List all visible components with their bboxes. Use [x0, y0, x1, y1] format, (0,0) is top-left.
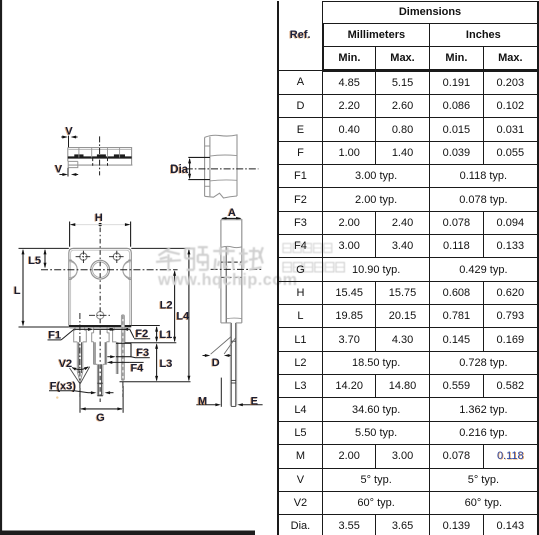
top view hidden lead dashes [92, 159, 94, 168]
F4 underline [130, 361, 144, 363]
bottom ext line left [19, 326, 69, 328]
top view bottom edge [68, 164, 132, 166]
side centerline [211, 268, 262, 270]
center lead shoulder [92, 333, 109, 342]
right lead centerline [122, 382, 124, 397]
L4 dimension line [188, 250, 190, 380]
center lead narrow inner [98, 364, 100, 396]
front body bottom thick edge [69, 325, 132, 327]
left lead shoulder [74, 330, 87, 342]
G extension lines [79, 388, 81, 413]
H extension lines [69, 222, 71, 247]
V top extension line [68, 136, 70, 148]
G dimension line [81, 408, 122, 410]
dia centerline [186, 168, 259, 170]
side body inner line [225, 247, 227, 323]
dia dimension lines [188, 156, 210, 158]
left lead narrow outer [76, 342, 78, 372]
F2 arrows [111, 328, 114, 330]
top view inner top line [69, 149, 131, 151]
dia view mold line 2 [210, 179, 237, 182]
svg-text:Dia: Dia [170, 164, 189, 176]
dia view body outline [205, 135, 237, 196]
svg-text:L5: L5 [28, 255, 41, 267]
F2 leader [130, 329, 134, 337]
side body outline [221, 220, 242, 323]
svg-text:F3: F3 [136, 347, 149, 359]
left notch edges [69, 259, 72, 261]
small hole left crosshair [76, 256, 92, 258]
front body under-edge line [70, 327, 131, 329]
top view lead section 3 [114, 154, 125, 157]
F3 bracket [116, 342, 131, 344]
right notch edges [128, 259, 131, 261]
L2 dimension line [174, 271, 176, 341]
L3 dimension line [156, 344, 158, 380]
top view tab outline [68, 148, 132, 166]
D projection lines [211, 337, 232, 355]
page left border [0, 0, 2, 535]
svg-text:E: E [251, 396, 258, 408]
left lead stub [74, 327, 76, 330]
watermark orange speck 1 [56, 396, 58, 398]
right lead narrow inner [117, 342, 119, 374]
side lead ticks [231, 340, 236, 342]
right lead strip dashes [122, 316, 124, 381]
F1 arrows [88, 328, 94, 331]
top view tick a [78, 148, 80, 158]
svg-text:G: G [96, 412, 105, 424]
top view tick b [91, 148, 93, 158]
svg-text:V: V [55, 163, 63, 175]
V2 construction lines [70, 368, 80, 384]
svg-text:L3: L3 [160, 358, 173, 370]
L dimension line [22, 250, 24, 325]
front body inner line [71, 250, 130, 325]
left lead narrow inner [78, 342, 80, 373]
top view lead section 2 [97, 154, 106, 157]
svg-text:L4: L4 [176, 311, 190, 323]
front body outline [69, 248, 132, 325]
svg-text:F4: F4 [131, 362, 145, 374]
shoulder ext line [125, 342, 176, 344]
bottom hole crosshair [89, 314, 112, 316]
top view left step [68, 161, 78, 167]
side hidden hole line top [221, 261, 241, 263]
Fx3 leader [74, 391, 88, 393]
top view thick mold line [68, 156, 132, 158]
svg-text:L2: L2 [160, 300, 173, 312]
right notch arcs [123, 260, 131, 279]
L1 dimension line [156, 327, 158, 341]
top ext line right [131, 247, 190, 249]
lead tip ext line [120, 381, 191, 383]
dia dimension arrow line [189, 159, 191, 178]
side bottom wave [226, 317, 242, 320]
body bottom ext right [131, 325, 160, 327]
right lead side profile strip [121, 315, 124, 381]
top view tick d [119, 148, 121, 158]
right lead stub [113, 327, 115, 330]
V bottom ext line [67, 168, 69, 177]
svg-text:D: D [212, 357, 220, 369]
dia view strip tick bottom [205, 185, 210, 187]
side body mold wave [221, 246, 242, 247]
dimensions table [277, 1, 539, 535]
bottom small hole [96, 312, 103, 319]
svg-text:H: H [95, 212, 103, 224]
top view lead section 1 [74, 154, 83, 157]
F3 arrow [107, 356, 111, 358]
center lead tip ticks [97, 382, 103, 384]
F1 leader [48, 339, 62, 341]
H arrows [70, 223, 76, 226]
centerline top dot [98, 223, 101, 226]
Fx3 underline [49, 390, 74, 392]
left lead tip taper [77, 372, 83, 382]
D dimension arrows [203, 355, 207, 357]
F4 arrow [110, 361, 130, 363]
top ext line left [19, 247, 69, 249]
svg-text:M: M [198, 396, 207, 408]
center lead mid outer [93, 342, 95, 365]
side body bottom edge [221, 322, 231, 324]
top view tick c [107, 148, 109, 158]
watermark hqchip [156, 244, 344, 290]
page bottom border [0, 531, 255, 535]
E dimension line [241, 404, 263, 406]
svg-text:V: V [65, 126, 73, 138]
svg-text:V2: V2 [59, 358, 72, 370]
right lead shoulder [113, 330, 125, 342]
L5 dimension line [44, 250, 46, 267]
F3 leader [131, 357, 136, 358]
side hidden hole line bottom [221, 276, 241, 278]
main horizontal centerline [41, 269, 178, 271]
V2 angle arc [72, 367, 88, 370]
right lead narrow outer [115, 342, 117, 374]
V bottom arrows [59, 174, 64, 176]
V top arrows [61, 136, 66, 138]
svg-text:A: A [228, 207, 236, 219]
M extension line [220, 378, 222, 407]
left lead centerline [79, 313, 81, 397]
dia view mold line 1 [210, 155, 237, 156]
center lead stub [93, 327, 95, 333]
Fx3 arrows [89, 392, 93, 394]
dia view tab strip [205, 137, 210, 197]
dia view strip tick top [205, 145, 210, 147]
center lead narrow outer [96, 364, 98, 396]
svg-text:L: L [14, 285, 21, 297]
H dimension line [71, 224, 130, 226]
svg-text:L1: L1 [159, 329, 172, 341]
A dimension line [222, 217, 240, 219]
M dimension line [196, 404, 217, 406]
left notch arcs [69, 260, 77, 279]
small hole right [113, 253, 120, 260]
center lead mid step [94, 363, 98, 365]
big mounting hole [91, 260, 110, 279]
main vertical centerline [99, 228, 101, 403]
small hole left [80, 253, 87, 260]
side lead strip [230, 323, 232, 407]
side lead outer grey [229, 323, 231, 406]
small hole right crosshair [109, 256, 125, 258]
center lead mid inner [94, 342, 96, 364]
svg-text:F2: F2 [135, 328, 148, 340]
top view centerline [99, 136, 101, 175]
dia view bottom edge [205, 193, 237, 198]
